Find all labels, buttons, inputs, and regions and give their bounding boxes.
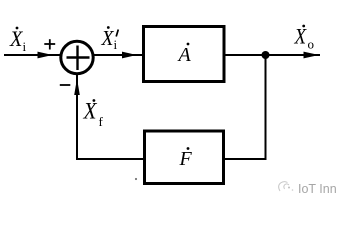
- wire: vertical feedback line up into summing junction: [76, 74, 78, 160]
- block F (feedback network): [145, 131, 224, 184]
- wire: horizontal into block F right side: [224, 158, 267, 160]
- block A (amplifier): [144, 27, 225, 82]
- svg-text:f: f: [99, 114, 104, 129]
- label X_o (output signal): [294, 24, 314, 52]
- node: junction dot on output line: [262, 51, 270, 59]
- scan speck: [135, 178, 137, 180]
- svg-text:o: o: [308, 37, 315, 52]
- svg-text:IoT Inn: IoT Inn: [298, 182, 337, 196]
- arrowhead: output arrow: [304, 52, 320, 59]
- watermark: IoT Inn logo icon: [279, 182, 294, 191]
- label A-dot: [177, 43, 192, 66]
- label X_f (feedback signal): [83, 99, 104, 129]
- svg-text:X: X: [83, 99, 98, 124]
- arrowhead into block A: [122, 52, 137, 59]
- wire: vertical feedback tap from output node: [265, 55, 267, 159]
- svg-text:X: X: [9, 26, 23, 51]
- wire: summing junction to block A: [93, 54, 142, 56]
- cross inside summing junction: [67, 46, 90, 71]
- label X_i (input signal): [9, 26, 26, 54]
- label X_i' (net input signal): [101, 26, 119, 52]
- svg-text:i: i: [23, 39, 27, 54]
- svg-text:i: i: [114, 37, 118, 52]
- summing junction circle: [61, 41, 93, 73]
- minus sign at summing junction: [60, 84, 71, 86]
- wire: block F output to left vertical feedback line: [76, 158, 144, 160]
- arrowhead: input arrow: [38, 52, 53, 59]
- svg-text:F: F: [179, 148, 193, 170]
- svg-text:A: A: [177, 44, 192, 66]
- svg-text:X: X: [101, 26, 115, 50]
- wire: input line into summing junction: [4, 54, 61, 56]
- svg-text:X: X: [294, 24, 308, 49]
- arrowhead: feedback arrow into summing junction: [74, 79, 80, 96]
- wire: block A to output: [225, 54, 320, 56]
- plus sign at summing junction: [44, 39, 55, 49]
- label F-dot: [179, 147, 193, 170]
